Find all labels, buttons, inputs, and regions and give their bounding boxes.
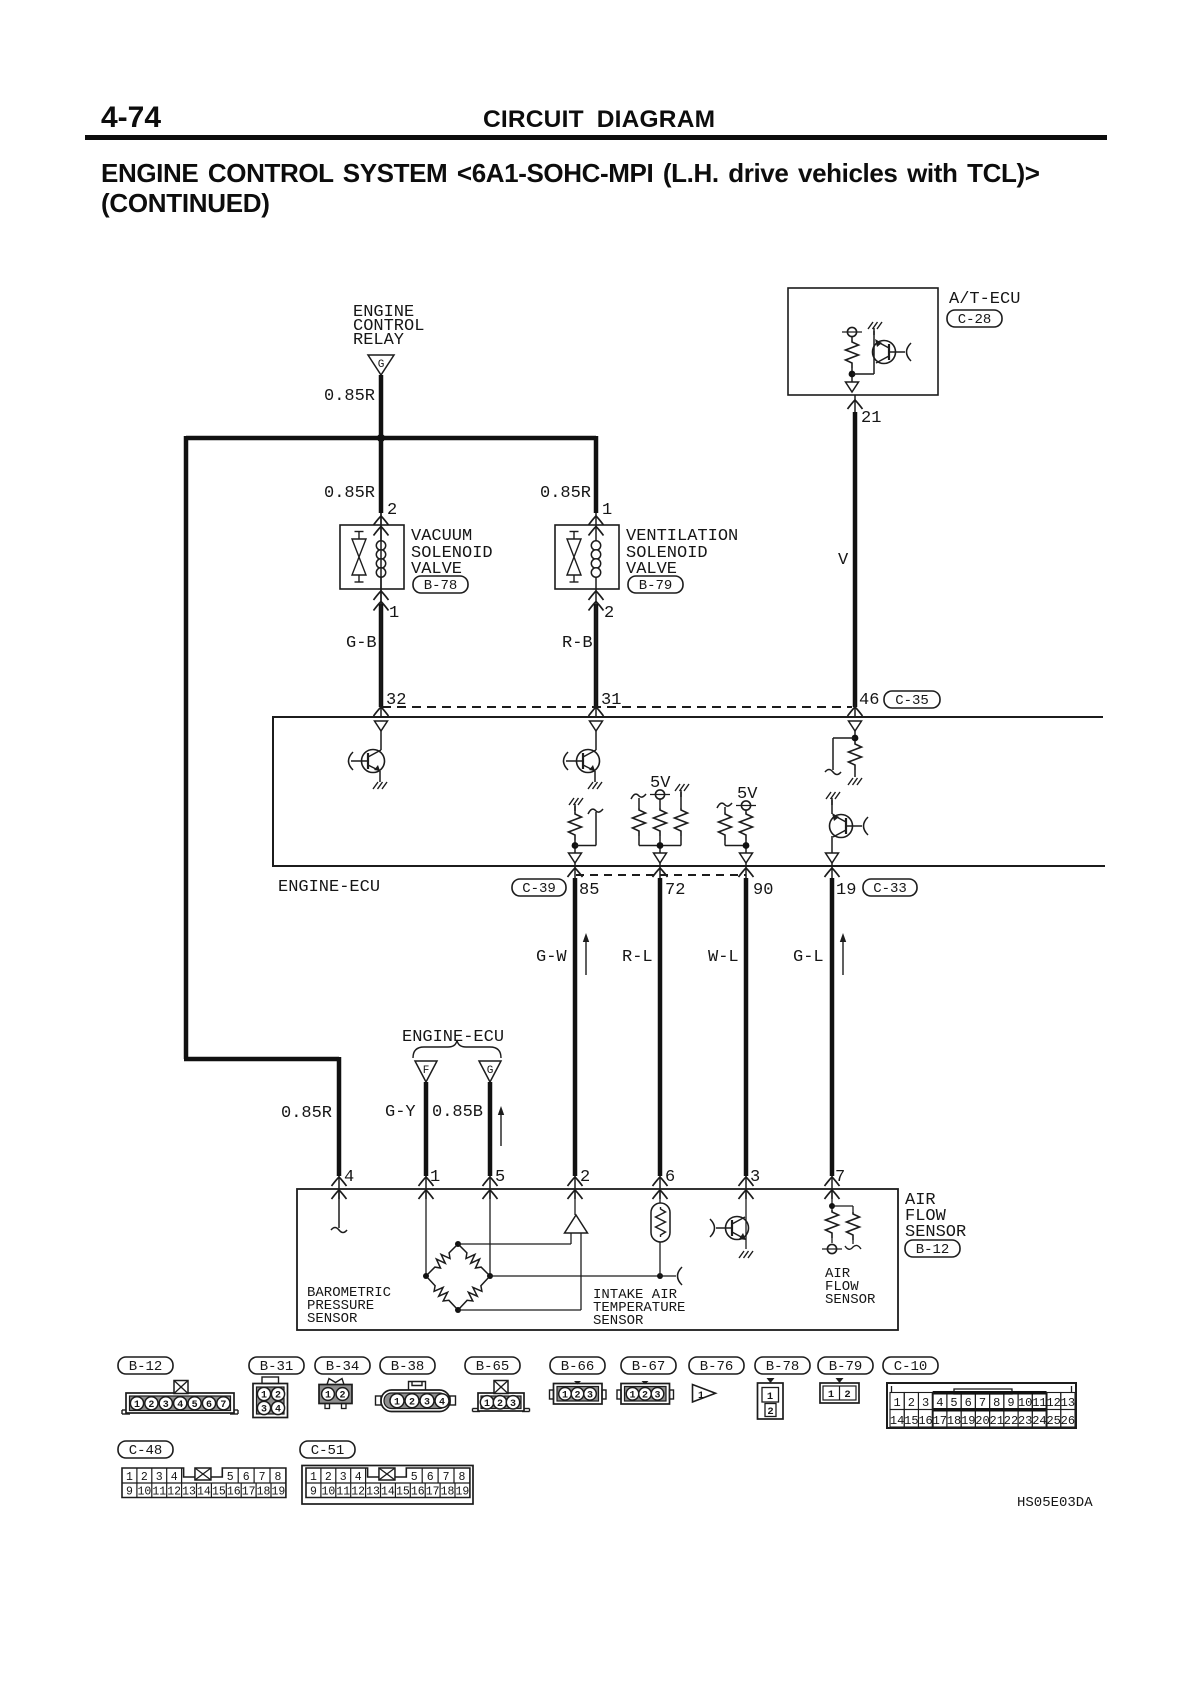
wire pin1 to bridge — [425, 1190, 427, 1276]
svg-text:2: 2 — [275, 1391, 281, 1402]
air flow sensor box — [297, 1189, 898, 1330]
svg-text:R-B: R-B — [562, 634, 593, 653]
ECU resistor R72 center — [659, 799, 661, 808]
svg-text:5: 5 — [495, 1168, 505, 1187]
connector B-66 drawing — [554, 1384, 603, 1405]
wire G-Y — [424, 1082, 429, 1176]
svg-text:12: 12 — [351, 1486, 365, 1499]
ventilation solenoid valve B-79 — [555, 525, 619, 589]
svg-text:2: 2 — [574, 1390, 580, 1401]
svg-text:0.85R: 0.85R — [281, 1104, 332, 1123]
svg-text:18: 18 — [947, 1414, 961, 1428]
svg-text:C-51: C-51 — [311, 1443, 345, 1459]
header rule — [85, 135, 1107, 140]
connector ref (B-38) (legend) — [380, 1357, 435, 1374]
ECU pin 90 junction — [743, 842, 750, 849]
ECU 5V terminal (pin 72) — [655, 790, 664, 799]
svg-text:1: 1 — [828, 1389, 834, 1401]
svg-text:3: 3 — [340, 1471, 347, 1484]
svg-text:11: 11 — [152, 1486, 166, 1499]
svg-text:B-67: B-67 — [632, 1359, 666, 1375]
svg-text:11: 11 — [336, 1486, 350, 1499]
svg-text:7: 7 — [979, 1396, 986, 1410]
connector ref (B-78) — [413, 576, 468, 593]
svg-text:B-65: B-65 — [476, 1359, 510, 1375]
amplifier (pressure sensor output) — [565, 1215, 588, 1233]
connector ref (B-31) (legend) — [249, 1357, 304, 1374]
connector ref (C-33) — [863, 879, 917, 896]
sensor box pin 4 crossing — [332, 1177, 347, 1186]
intake air temp sensor junction — [657, 1273, 663, 1279]
svg-text:6: 6 — [427, 1471, 434, 1484]
svg-text:SENSOR: SENSOR — [825, 1292, 876, 1308]
ECU pin 85 branch — [575, 845, 596, 847]
svg-text:G-Y: G-Y — [385, 1103, 416, 1122]
connector ref (C-28) — [947, 310, 1002, 327]
connector ref (B-12) (legend) — [118, 1357, 173, 1374]
pin 21 chevron — [848, 400, 863, 409]
svg-text:18: 18 — [441, 1486, 455, 1499]
svg-text:5: 5 — [411, 1471, 418, 1484]
pin 4 stub — [338, 1190, 340, 1228]
svg-text:4: 4 — [439, 1397, 445, 1408]
wire right drop to ventilation solenoid — [594, 436, 599, 513]
connector B-31 drawing — [253, 1384, 288, 1418]
svg-text:3: 3 — [510, 1399, 516, 1410]
svg-text:SENSOR: SENSOR — [307, 1311, 358, 1327]
svg-text:17: 17 — [933, 1414, 947, 1428]
svg-text:B-34: B-34 — [326, 1359, 360, 1375]
svg-text:B-12: B-12 — [129, 1359, 163, 1375]
svg-text:1: 1 — [562, 1390, 568, 1401]
A/T-ECU resistor — [851, 337, 853, 340]
svg-text:7: 7 — [835, 1168, 845, 1187]
svg-text:4: 4 — [355, 1471, 362, 1484]
svg-text:72: 72 — [665, 881, 685, 900]
svg-text:4: 4 — [936, 1396, 943, 1410]
brace under ENGINE-ECU — [413, 1040, 501, 1058]
svg-text:C-48: C-48 — [129, 1443, 163, 1459]
connector ref (C-35) — [884, 691, 940, 708]
wire pin5 to bridge — [489, 1190, 491, 1276]
connector C-51 drawing — [302, 1466, 473, 1505]
svg-text:16: 16 — [918, 1414, 932, 1428]
svg-text:F: F — [423, 1065, 430, 1077]
svg-text:B-38: B-38 — [391, 1359, 425, 1375]
connector B-34 drawing — [319, 1385, 352, 1404]
svg-text:B-78: B-78 — [766, 1359, 800, 1375]
svg-text:B-12: B-12 — [916, 1242, 950, 1258]
svg-text:13: 13 — [366, 1486, 380, 1499]
svg-text:G-W: G-W — [536, 948, 567, 967]
connector ref (B-66) (legend) — [550, 1357, 605, 1374]
svg-text:23: 23 — [1018, 1414, 1032, 1428]
svg-text:15: 15 — [904, 1414, 918, 1428]
bridge node left — [423, 1273, 429, 1279]
svg-text:14: 14 — [381, 1486, 395, 1499]
svg-text:C-10: C-10 — [894, 1359, 928, 1375]
ECU resistor R90 left — [717, 803, 732, 808]
sensor box pin 3 crossing — [739, 1177, 754, 1186]
svg-text:1: 1 — [430, 1168, 440, 1187]
wire G-L direction arrow — [842, 938, 844, 975]
svg-text:1: 1 — [126, 1471, 133, 1484]
svg-text:10: 10 — [321, 1486, 335, 1499]
svg-text:2: 2 — [580, 1168, 590, 1187]
svg-text:C-33: C-33 — [873, 881, 907, 897]
svg-text:19: 19 — [272, 1486, 286, 1499]
wire W-L — [744, 878, 749, 1176]
svg-text:2: 2 — [497, 1399, 503, 1410]
svg-text:31: 31 — [601, 691, 621, 710]
svg-text:3: 3 — [654, 1390, 660, 1401]
vacuum solenoid valve B-78 — [340, 525, 404, 589]
ECU pin 46 input triangle — [849, 721, 862, 731]
svg-text:1: 1 — [389, 604, 399, 623]
wire R-L — [658, 878, 663, 1176]
connector ref (B-79) — [628, 576, 683, 593]
svg-text:9: 9 — [1007, 1396, 1014, 1410]
svg-text:2: 2 — [908, 1396, 915, 1410]
wire G-B — [379, 604, 384, 707]
svg-text:19: 19 — [836, 881, 856, 900]
connector B-65 drawing — [478, 1393, 524, 1411]
ECU resistor R72 right — [680, 790, 682, 797]
wire G-W — [573, 878, 578, 1176]
svg-text:G: G — [378, 359, 385, 371]
svg-text:6: 6 — [243, 1471, 250, 1484]
connector B-76 drawing — [693, 1385, 716, 1403]
svg-text:C-35: C-35 — [895, 693, 929, 709]
ECU pin 72 output triangle — [654, 853, 667, 863]
svg-text:7: 7 — [443, 1471, 450, 1484]
svg-text:16: 16 — [411, 1486, 425, 1499]
wire pin2 to amp — [574, 1190, 576, 1215]
A/T-ECU internal junction — [849, 371, 856, 378]
svg-text:10: 10 — [1018, 1396, 1032, 1410]
svg-text:2: 2 — [387, 501, 397, 520]
bridge resistor RD — [458, 1276, 490, 1310]
connector ref (C-10) (legend) — [883, 1357, 938, 1374]
svg-text:SENSOR: SENSOR — [593, 1313, 644, 1329]
svg-text:B-31: B-31 — [260, 1359, 294, 1375]
svg-text:15: 15 — [396, 1486, 410, 1499]
svg-text:8: 8 — [993, 1396, 1000, 1410]
A/T-ECU box — [788, 288, 938, 395]
sensor box pin 6 crossing — [653, 1177, 668, 1186]
svg-text:ENGINE-ECU: ENGINE-ECU — [402, 1028, 504, 1047]
svg-text:2: 2 — [642, 1390, 648, 1401]
svg-text:2: 2 — [325, 1471, 332, 1484]
svg-text:4: 4 — [177, 1400, 183, 1411]
sensor box pin 7 crossing — [825, 1177, 840, 1186]
svg-text:13: 13 — [182, 1486, 196, 1499]
pin 46 chevron — [848, 707, 863, 716]
wire left 0.85R drop — [184, 436, 189, 1059]
svg-text:SENSOR: SENSOR — [905, 1223, 966, 1242]
svg-text:RELAY: RELAY — [353, 331, 404, 350]
svg-text:C-28: C-28 — [958, 312, 992, 328]
svg-text:4: 4 — [275, 1405, 281, 1416]
connector C-10 drawing — [887, 1383, 1076, 1428]
ECU transistor Q2 (pin 31 driver) — [590, 721, 603, 731]
wire bridge bottom to amp — [458, 1309, 581, 1311]
ECU pin 85 output triangle — [569, 853, 582, 863]
svg-text:2: 2 — [604, 604, 614, 623]
wire to break (temp sensor) — [660, 1275, 676, 1277]
bridge node top — [455, 1241, 461, 1247]
sensor box pin 5 crossing — [483, 1177, 498, 1186]
svg-text:R-L: R-L — [622, 948, 653, 967]
svg-text:8: 8 — [274, 1471, 281, 1484]
connector B-78 drawing — [758, 1383, 784, 1419]
svg-text:26: 26 — [1061, 1414, 1075, 1428]
svg-text:1: 1 — [261, 1391, 267, 1402]
ECU pin 72 bottom rail — [639, 845, 681, 847]
svg-text:24: 24 — [1032, 1414, 1046, 1428]
svg-text:15: 15 — [212, 1486, 226, 1499]
svg-text:32: 32 — [386, 691, 406, 710]
dashed harness line (C-39 bottom) — [576, 874, 746, 876]
title line 2 — [101, 188, 270, 219]
svg-text:B-79: B-79 — [639, 578, 673, 594]
svg-text:3: 3 — [424, 1397, 430, 1408]
svg-text:7: 7 — [259, 1471, 266, 1484]
svg-text:B-66: B-66 — [561, 1359, 595, 1375]
wire power bus horizontal — [186, 436, 596, 441]
svg-text:17: 17 — [426, 1486, 440, 1499]
svg-text:11: 11 — [1032, 1396, 1046, 1410]
engine control relay terminal G (triangle) — [368, 355, 394, 375]
ECU pin 72 junction — [657, 842, 664, 849]
svg-text:12: 12 — [1046, 1396, 1060, 1410]
pin 31 chevron — [589, 707, 604, 716]
sensor box transistor Q4 — [745, 1190, 747, 1249]
ECU pin 90 output triangle — [740, 853, 753, 863]
svg-text:19: 19 — [961, 1414, 975, 1428]
connector ref (C-39) — [512, 879, 566, 896]
bridge node bottom — [455, 1307, 461, 1313]
svg-text:3: 3 — [587, 1390, 593, 1401]
connector B-38 drawing — [381, 1390, 450, 1412]
svg-text:1: 1 — [134, 1400, 140, 1411]
svg-text:0.85R: 0.85R — [324, 484, 375, 503]
ENGINE-ECU box — [273, 717, 1105, 866]
A/T-ECU output terminal triangle — [846, 382, 859, 392]
wire bridge right to pin6 node — [490, 1275, 660, 1277]
bridge resistor RB — [458, 1244, 490, 1276]
svg-text:1: 1 — [698, 1391, 704, 1402]
connector C-48 drawing — [122, 1468, 286, 1498]
svg-text:6: 6 — [965, 1396, 972, 1410]
wire G-W direction arrow — [585, 938, 587, 975]
svg-text:B-79: B-79 — [829, 1359, 863, 1375]
connector ref (B-67) (legend) — [621, 1357, 676, 1374]
svg-text:2: 2 — [409, 1397, 415, 1408]
ECU resistor R90 right — [745, 810, 747, 812]
svg-text:21: 21 — [861, 409, 881, 428]
connector B-67 drawing — [621, 1384, 670, 1405]
svg-text:4: 4 — [171, 1471, 178, 1484]
ECU resistor R85 — [574, 806, 576, 812]
svg-text:1: 1 — [767, 1391, 773, 1403]
svg-text:1: 1 — [394, 1397, 400, 1408]
svg-text:2: 2 — [141, 1471, 148, 1484]
svg-text:0.85R: 0.85R — [324, 387, 375, 406]
svg-text:6: 6 — [665, 1168, 675, 1187]
page number 4-74 — [101, 101, 161, 135]
wire G-L — [830, 878, 835, 1176]
svg-text:B-78: B-78 — [424, 578, 458, 594]
ECU pin 19 output triangle — [826, 853, 839, 863]
svg-text:5: 5 — [192, 1400, 198, 1411]
air flow sensor resistors — [831, 1190, 833, 1210]
pin 32 chevron — [374, 707, 389, 716]
ECU R46 ground — [848, 778, 853, 785]
A/T-ECU pull-up terminal — [847, 327, 856, 336]
connector ref (B-12) at sensor box — [905, 1240, 960, 1257]
svg-text:2: 2 — [148, 1400, 154, 1411]
ECU resistor R72 left — [631, 794, 646, 799]
junction on bus at relay wire — [377, 434, 385, 442]
svg-text:3: 3 — [922, 1396, 929, 1410]
svg-text:16: 16 — [227, 1486, 241, 1499]
svg-text:6: 6 — [206, 1400, 212, 1411]
connector ref (C-51) (legend) — [300, 1441, 355, 1458]
bridge node right — [487, 1273, 493, 1279]
ECU pin 85 junction — [572, 842, 579, 849]
svg-text:1: 1 — [484, 1399, 490, 1410]
bridge resistor RA — [426, 1244, 458, 1276]
svg-text:HS05E03DA: HS05E03DA — [1017, 1495, 1093, 1511]
wire 0.85B — [488, 1082, 493, 1176]
sensor box pin 1 crossing — [419, 1177, 434, 1186]
terminal F (triangle) — [415, 1061, 437, 1082]
svg-text:2: 2 — [767, 1406, 773, 1418]
intake air temperature sensor element — [659, 1190, 661, 1204]
wire 0.85R from relay — [379, 375, 384, 513]
svg-text:0.85R: 0.85R — [540, 484, 591, 503]
svg-text:14: 14 — [197, 1486, 211, 1499]
connector ref (B-78) (legend) — [755, 1357, 810, 1374]
svg-text:20: 20 — [975, 1414, 989, 1428]
svg-text:25: 25 — [1046, 1414, 1060, 1428]
ECU resistor R46 — [849, 742, 862, 770]
connector ref (B-76) (legend) — [689, 1357, 744, 1374]
wire 0.85B direction arrow — [500, 1111, 502, 1146]
svg-text:1: 1 — [894, 1396, 901, 1410]
svg-text:2: 2 — [844, 1389, 850, 1401]
svg-text:3: 3 — [156, 1471, 163, 1484]
svg-text:W-L: W-L — [708, 948, 739, 967]
ECU pin 46 branch break — [825, 770, 841, 775]
svg-text:22: 22 — [1004, 1414, 1018, 1428]
sensor box pin 2 crossing — [568, 1177, 583, 1186]
wire bridge top to amp — [458, 1243, 571, 1245]
connector B-79 drawing — [820, 1383, 859, 1403]
svg-text:ENGINE-ECU: ENGINE-ECU — [278, 878, 380, 897]
svg-text:B-76: B-76 — [700, 1359, 734, 1375]
ECU pin 46 junction — [852, 735, 859, 742]
svg-text:G-B: G-B — [346, 634, 377, 653]
svg-text:9: 9 — [126, 1486, 133, 1499]
terminal G (triangle) — [479, 1061, 501, 1082]
svg-text:5: 5 — [950, 1396, 957, 1410]
svg-text:4: 4 — [344, 1168, 354, 1187]
svg-text:17: 17 — [242, 1486, 256, 1499]
svg-text:13: 13 — [1061, 1396, 1075, 1410]
svg-text:1: 1 — [602, 501, 612, 520]
connector ref (C-48) (legend) — [118, 1441, 173, 1458]
connector ref (B-65) (legend) — [465, 1357, 520, 1374]
ECU transistor Q3 (pin 19) — [831, 798, 833, 805]
wire R-B — [594, 604, 599, 707]
svg-text:8: 8 — [458, 1471, 465, 1484]
svg-text:7: 7 — [220, 1400, 226, 1411]
svg-text:1: 1 — [325, 1391, 331, 1402]
ECU bottom pin 19 chevron — [825, 868, 840, 877]
ECU transistor Q1 (pin 32 driver) — [375, 721, 388, 731]
connector ref (B-79) (legend) — [818, 1357, 873, 1374]
connector B-12 drawing — [126, 1393, 234, 1413]
A/T-ECU supply hatch — [873, 328, 875, 335]
svg-text:2: 2 — [339, 1391, 345, 1402]
svg-text:21: 21 — [990, 1414, 1004, 1428]
svg-text:18: 18 — [257, 1486, 271, 1499]
svg-text:46: 46 — [859, 691, 879, 710]
svg-text:9: 9 — [310, 1486, 317, 1499]
svg-text:V: V — [838, 551, 849, 570]
svg-text:1: 1 — [629, 1390, 635, 1401]
svg-text:0.85B: 0.85B — [432, 1103, 483, 1122]
ECU 5V terminal (pin 90) — [741, 801, 750, 810]
dashed harness line (C-35) — [382, 706, 852, 708]
ECU pin 46 branch wire — [833, 737, 855, 739]
svg-text:3: 3 — [163, 1400, 169, 1411]
svg-text:G-L: G-L — [793, 948, 824, 967]
ECU pin 90 bottom rail — [725, 845, 746, 847]
ECU bottom pin 72 chevron — [653, 868, 668, 877]
svg-text:19: 19 — [456, 1486, 470, 1499]
A/T-ECU base branch wire — [852, 373, 874, 375]
svg-text:5: 5 — [227, 1471, 234, 1484]
svg-text:12: 12 — [167, 1486, 181, 1499]
svg-text:G: G — [487, 1065, 494, 1077]
svg-text:90: 90 — [753, 881, 773, 900]
svg-text:C-39: C-39 — [522, 881, 556, 897]
svg-text:14: 14 — [890, 1414, 904, 1428]
svg-text:10: 10 — [137, 1486, 151, 1499]
ECU pin 85 supply — [574, 804, 576, 811]
wire V (A/T-ECU to ECU) — [853, 412, 858, 707]
A/T-ECU transistor Q — [873, 341, 896, 364]
ECU bottom pin 90 chevron — [739, 868, 754, 877]
header CIRCUIT DIAGRAM — [483, 106, 715, 134]
svg-text:85: 85 — [579, 881, 599, 900]
bridge resistor RC — [426, 1276, 458, 1310]
title line 1 — [101, 158, 1040, 189]
svg-text:A/T-ECU: A/T-ECU — [949, 290, 1020, 309]
svg-text:3: 3 — [750, 1168, 760, 1187]
ECU bottom pin 85 chevron — [568, 868, 583, 877]
svg-text:3: 3 — [261, 1405, 267, 1416]
svg-text:1: 1 — [310, 1471, 317, 1484]
connector ref (B-34) (legend) — [315, 1357, 370, 1374]
